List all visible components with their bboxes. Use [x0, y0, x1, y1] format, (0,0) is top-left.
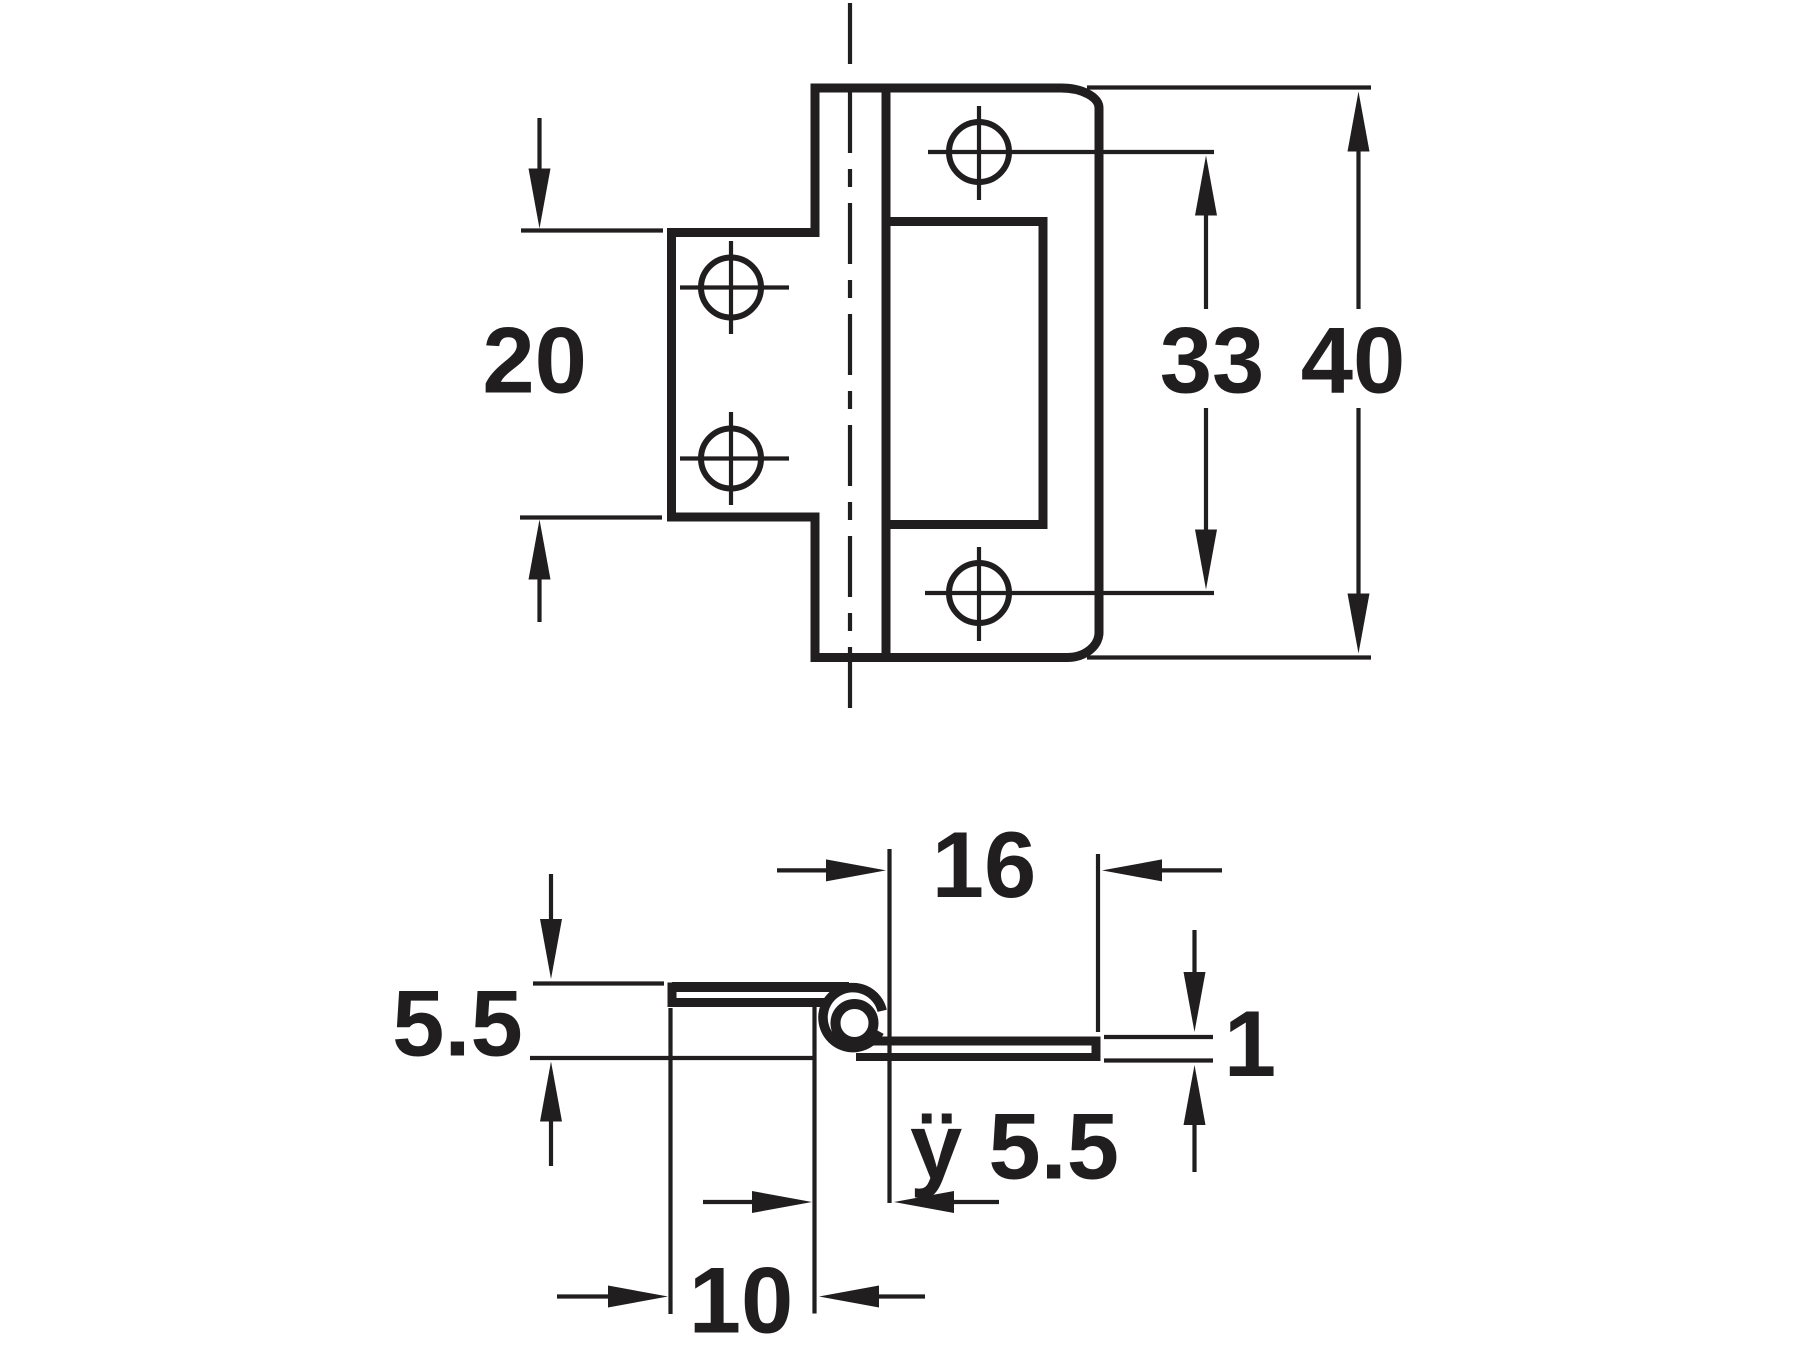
svg-text:10: 10 [689, 1248, 794, 1350]
svg-text:33: 33 [1160, 308, 1265, 413]
svg-text:ÿ 5.5: ÿ 5.5 [910, 1094, 1119, 1199]
svg-text:16: 16 [932, 812, 1037, 917]
svg-text:5.5: 5.5 [392, 971, 523, 1076]
svg-text:20: 20 [482, 308, 587, 413]
svg-text:40: 40 [1301, 308, 1406, 413]
svg-text:1: 1 [1224, 991, 1276, 1096]
